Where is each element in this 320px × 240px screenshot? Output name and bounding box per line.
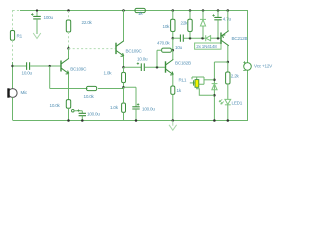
wire rail to 4.7u — [217, 10, 219, 17]
wire LED to ground rail — [227, 105, 229, 121]
node pump junction clamp diode — [201, 37, 204, 40]
wire Q3 emitter down — [172, 74, 174, 86]
wire Q2 base — [69, 48, 116, 50]
wire Q4 collector down — [227, 46, 229, 62]
capacitor 100u supply filter positive mark — [31, 13, 34, 16]
wire preset tap to 100.0u — [74, 111, 82, 114]
wire rail to 10k — [172, 10, 174, 19]
ground symbol left — [33, 33, 41, 39]
wire clamp diode to pump node — [202, 26, 204, 38]
svg-text:LED1: LED1 — [232, 100, 243, 105]
wire bias rail horizontal — [50, 88, 124, 90]
microphone MIC1 front plate — [7, 88, 9, 97]
capacitor 10.0u input coupling plates — [27, 62, 30, 70]
node ground rail junction 100.0u decoupling — [135, 119, 138, 122]
wire Q2 emitter to coupling cap — [124, 66, 142, 68]
wire top supply rail — [20, 10, 248, 12]
wire 100.0u to ground rail — [81, 116, 83, 121]
resistor 1k series supply body horizontal — [135, 8, 145, 12]
wire rail to 22k — [189, 10, 191, 19]
diode D3 1N4148 flyback cathode bar — [212, 83, 218, 85]
node 470k right junction — [172, 49, 175, 52]
wire coupling cap to Q3 base — [145, 66, 165, 68]
diode D2 1N4148 series cathode bar — [205, 35, 207, 41]
resistor 10k collector load body — [171, 19, 175, 31]
svg-text:10.0k: 10.0k — [84, 94, 95, 99]
wire Q1 emitter down — [68, 73, 70, 99]
svg-text:1k: 1k — [138, 11, 143, 16]
wire mic bottom to ground rail — [12, 97, 14, 120]
svg-text:22k: 22k — [181, 21, 189, 26]
relay RL1 armature bar — [193, 80, 195, 85]
node Q4 base junction 4.7u — [217, 37, 220, 40]
node ground rail junction 100.0u — [81, 119, 84, 122]
wire Q3 collector node down — [172, 38, 174, 50]
wire C-in to Q1 base — [30, 65, 60, 67]
node Q1 collector / Q2 base junction — [67, 47, 70, 50]
node Q3 base / 470k junction — [156, 66, 159, 69]
svg-text:Vcc +12V: Vcc +12V — [254, 63, 273, 68]
node Q3 collector / 10u junction — [172, 37, 175, 40]
wire dashed top-left corner segment — [13, 10, 21, 31]
resistor 2.2k body — [226, 72, 230, 84]
wire 10u to diode pump node — [184, 37, 205, 39]
svg-text:10u: 10u — [175, 45, 183, 50]
diode D1 1N4148 clamp cathode bar — [200, 18, 206, 20]
capacitor 10u pump plates — [180, 35, 183, 42]
wire bottom ground rail — [13, 120, 248, 122]
LED LED1 triangle — [225, 99, 231, 104]
svg-text:2.2k: 2.2k — [231, 73, 240, 78]
wire Q1 collector riser — [68, 48, 70, 58]
svg-text:BC182B: BC182B — [175, 60, 191, 65]
wire 470k right lead — [171, 49, 172, 51]
LED LED1 light arrows — [219, 99, 224, 104]
wire relay coil bottom dogleg — [197, 87, 215, 95]
wire mic node column — [12, 62, 14, 89]
wire relay to column top — [204, 79, 214, 81]
svg-text:4.7u: 4.7u — [223, 17, 232, 22]
capacitor 10.0u coupling positive mark — [137, 62, 139, 64]
node Q2 emitter junction — [122, 66, 125, 69]
node Q4 collector junction — [227, 61, 230, 64]
svg-text:RL1: RL1 — [179, 78, 187, 83]
node relay bottom junction — [213, 94, 216, 97]
node Q1 base / bias junction — [49, 65, 51, 67]
resistor 10.0k feedback body horizontal — [87, 86, 97, 90]
label box 2x 1N4148 — [195, 43, 221, 49]
wire Q2 collector riser — [123, 10, 125, 41]
power supply V1 circle — [244, 63, 252, 71]
resistor R1 body — [10, 31, 14, 41]
capacitor 4.7u plates — [214, 17, 221, 19]
node rail junction 22k — [189, 9, 192, 12]
wire preset bottom to ground rail — [68, 108, 70, 120]
capacitor 4.7u positive mark — [212, 14, 214, 16]
node ground rail junction relay — [213, 119, 216, 122]
node pump junction 22k — [189, 37, 192, 40]
svg-text:1k: 1k — [177, 88, 182, 93]
capacitor 100.0u decoupling plates — [132, 107, 139, 109]
node rail junction 10k — [172, 9, 175, 12]
wire dashed 22.0k to Q1 collector node — [68, 32, 70, 46]
wire decoupling node to 100.0u branch — [124, 87, 137, 107]
transistor Q3 collector slant — [166, 59, 174, 64]
relay RL1 armature left stub — [190, 82, 195, 84]
svg-text:R1: R1 — [17, 33, 23, 38]
wire rail to clamp diode — [202, 10, 204, 19]
node rail junction 100u — [36, 9, 38, 11]
relay RL1 coil top lead — [196, 77, 198, 80]
transistor Q1 collector slant — [61, 58, 69, 63]
power supply V1 polarity marks — [243, 61, 245, 71]
wire 22k to pump node — [189, 32, 191, 39]
relay RL1 coil body yellow — [195, 80, 199, 88]
wire rail to 100u — [36, 10, 38, 16]
transistor Q3 emitter slant with arrow — [166, 69, 174, 75]
transistor Q1 BC109C base bar — [60, 61, 62, 72]
wire dashed below R1 — [12, 40, 14, 62]
diode D1 1N4148 clamp triangle — [200, 20, 205, 26]
svg-text:10.0u: 10.0u — [137, 56, 148, 61]
node mic/R1/C-in junction — [11, 65, 13, 67]
node ground rail junction LED — [227, 119, 230, 122]
preset 10.0k Q1 emitter body — [66, 100, 70, 109]
node rail junction 22.0k — [67, 9, 70, 12]
transistor Q3 BC182B base bar — [165, 61, 167, 72]
wire 1k to ground rail — [172, 94, 174, 120]
transistor Q2 BC109C base bar — [115, 43, 117, 54]
wire Q4 emitter riser — [227, 10, 229, 31]
svg-text:10.0u: 10.0u — [22, 70, 33, 75]
svg-text:Mic: Mic — [21, 90, 28, 95]
wire input node to C-in — [13, 65, 27, 67]
svg-text:470.0k: 470.0k — [157, 40, 170, 45]
svg-text:100u: 100u — [44, 15, 54, 20]
wire 2.2k to LED — [227, 84, 229, 99]
wire 1.0k lower leads — [123, 87, 125, 120]
node rail junction Q2 collector — [122, 9, 125, 12]
LED LED1 cathode bar — [225, 104, 231, 106]
capacitor 10.0u coupling plates — [141, 63, 144, 71]
microphone MIC1 circle — [8, 89, 17, 98]
node rail junction 4.7u — [217, 9, 220, 12]
transistor Q1 emitter slant with arrow — [61, 68, 69, 74]
capacitor 100u plates — [33, 16, 41, 19]
svg-text:BC109C: BC109C — [70, 66, 87, 71]
resistor 1.0k lower body — [122, 103, 126, 112]
resistor 1k Q3 emitter body — [171, 86, 175, 94]
resistor 22k body — [188, 19, 192, 31]
relay RL1 contact top bar — [192, 77, 204, 79]
wire dashed rail to 22.0k — [68, 11, 70, 20]
diode D2 1N4148 series triangle — [206, 36, 211, 41]
capacitor 100.0u decoupling positive mark — [137, 103, 139, 105]
capacitor 100.0u bypass plates — [79, 113, 86, 115]
transistor Q4 emitter slant with arrow PNP — [221, 31, 229, 38]
svg-text:10k: 10k — [163, 24, 171, 29]
svg-text:1.0k: 1.0k — [110, 105, 119, 110]
wire Q2 emitter down — [123, 56, 125, 68]
wire bias dropper vertical — [49, 66, 51, 89]
wire 4.7u to Q4 base node — [217, 20, 219, 38]
wire series diode to Q4 base — [211, 37, 221, 39]
transistor Q4 BC212B base bar — [220, 33, 222, 44]
node rail junction clamp diode — [202, 9, 205, 12]
wire 22.0k node stub — [68, 46, 70, 48]
svg-text:1.0k: 1.0k — [104, 71, 113, 76]
svg-text:100.0u: 100.0u — [87, 111, 100, 116]
transistor Q2 collector slant — [116, 41, 124, 46]
wire 470k left lead and drop — [157, 50, 162, 67]
wire 10k to Q3 collector node — [172, 32, 174, 39]
svg-text:2x 1N4148: 2x 1N4148 — [196, 44, 217, 49]
resistor 22.0k body — [66, 20, 70, 32]
svg-text:BC109C: BC109C — [126, 48, 143, 53]
node decoupling junction — [122, 86, 125, 89]
node ground rail junction preset — [67, 119, 70, 122]
wire Q4 collector to relay column — [214, 62, 227, 121]
svg-text:10.0k: 10.0k — [50, 103, 61, 108]
wire 100u to ground symbol — [36, 19, 38, 34]
resistor 470.0k feedback body horizontal — [162, 48, 172, 52]
transistor Q4 collector slant — [221, 40, 229, 45]
svg-text:100.0u: 100.0u — [142, 106, 155, 111]
resistor 1.0k Q2 emitter body — [122, 72, 126, 82]
capacitor 100.0u bypass positive mark — [77, 109, 79, 111]
ground symbol bottom — [169, 121, 177, 131]
node relay top junction — [213, 79, 216, 82]
wire Q4 collector to 2.2k — [227, 62, 229, 72]
transistor Q2 emitter slant with arrow — [116, 51, 124, 57]
svg-text:BC212B: BC212B — [232, 36, 248, 41]
node ground rail junction Q3 emitter — [172, 119, 175, 122]
wire right supply rail — [247, 10, 249, 120]
relay RL1 contact right link — [199, 77, 204, 84]
svg-text:22.0k: 22.0k — [82, 20, 93, 25]
wire Q3 collector riser — [172, 50, 174, 59]
wire Q2 emitter resistor leads — [123, 67, 125, 87]
node rail junction Q4 emitter — [227, 9, 230, 12]
diode D3 1N4148 flyback triangle — [212, 84, 217, 90]
wire Q3 collector node to 10u — [173, 37, 180, 39]
wire 100.0u decoupling to ground rail — [135, 109, 137, 121]
preset 10.0k tap circle — [72, 109, 75, 112]
